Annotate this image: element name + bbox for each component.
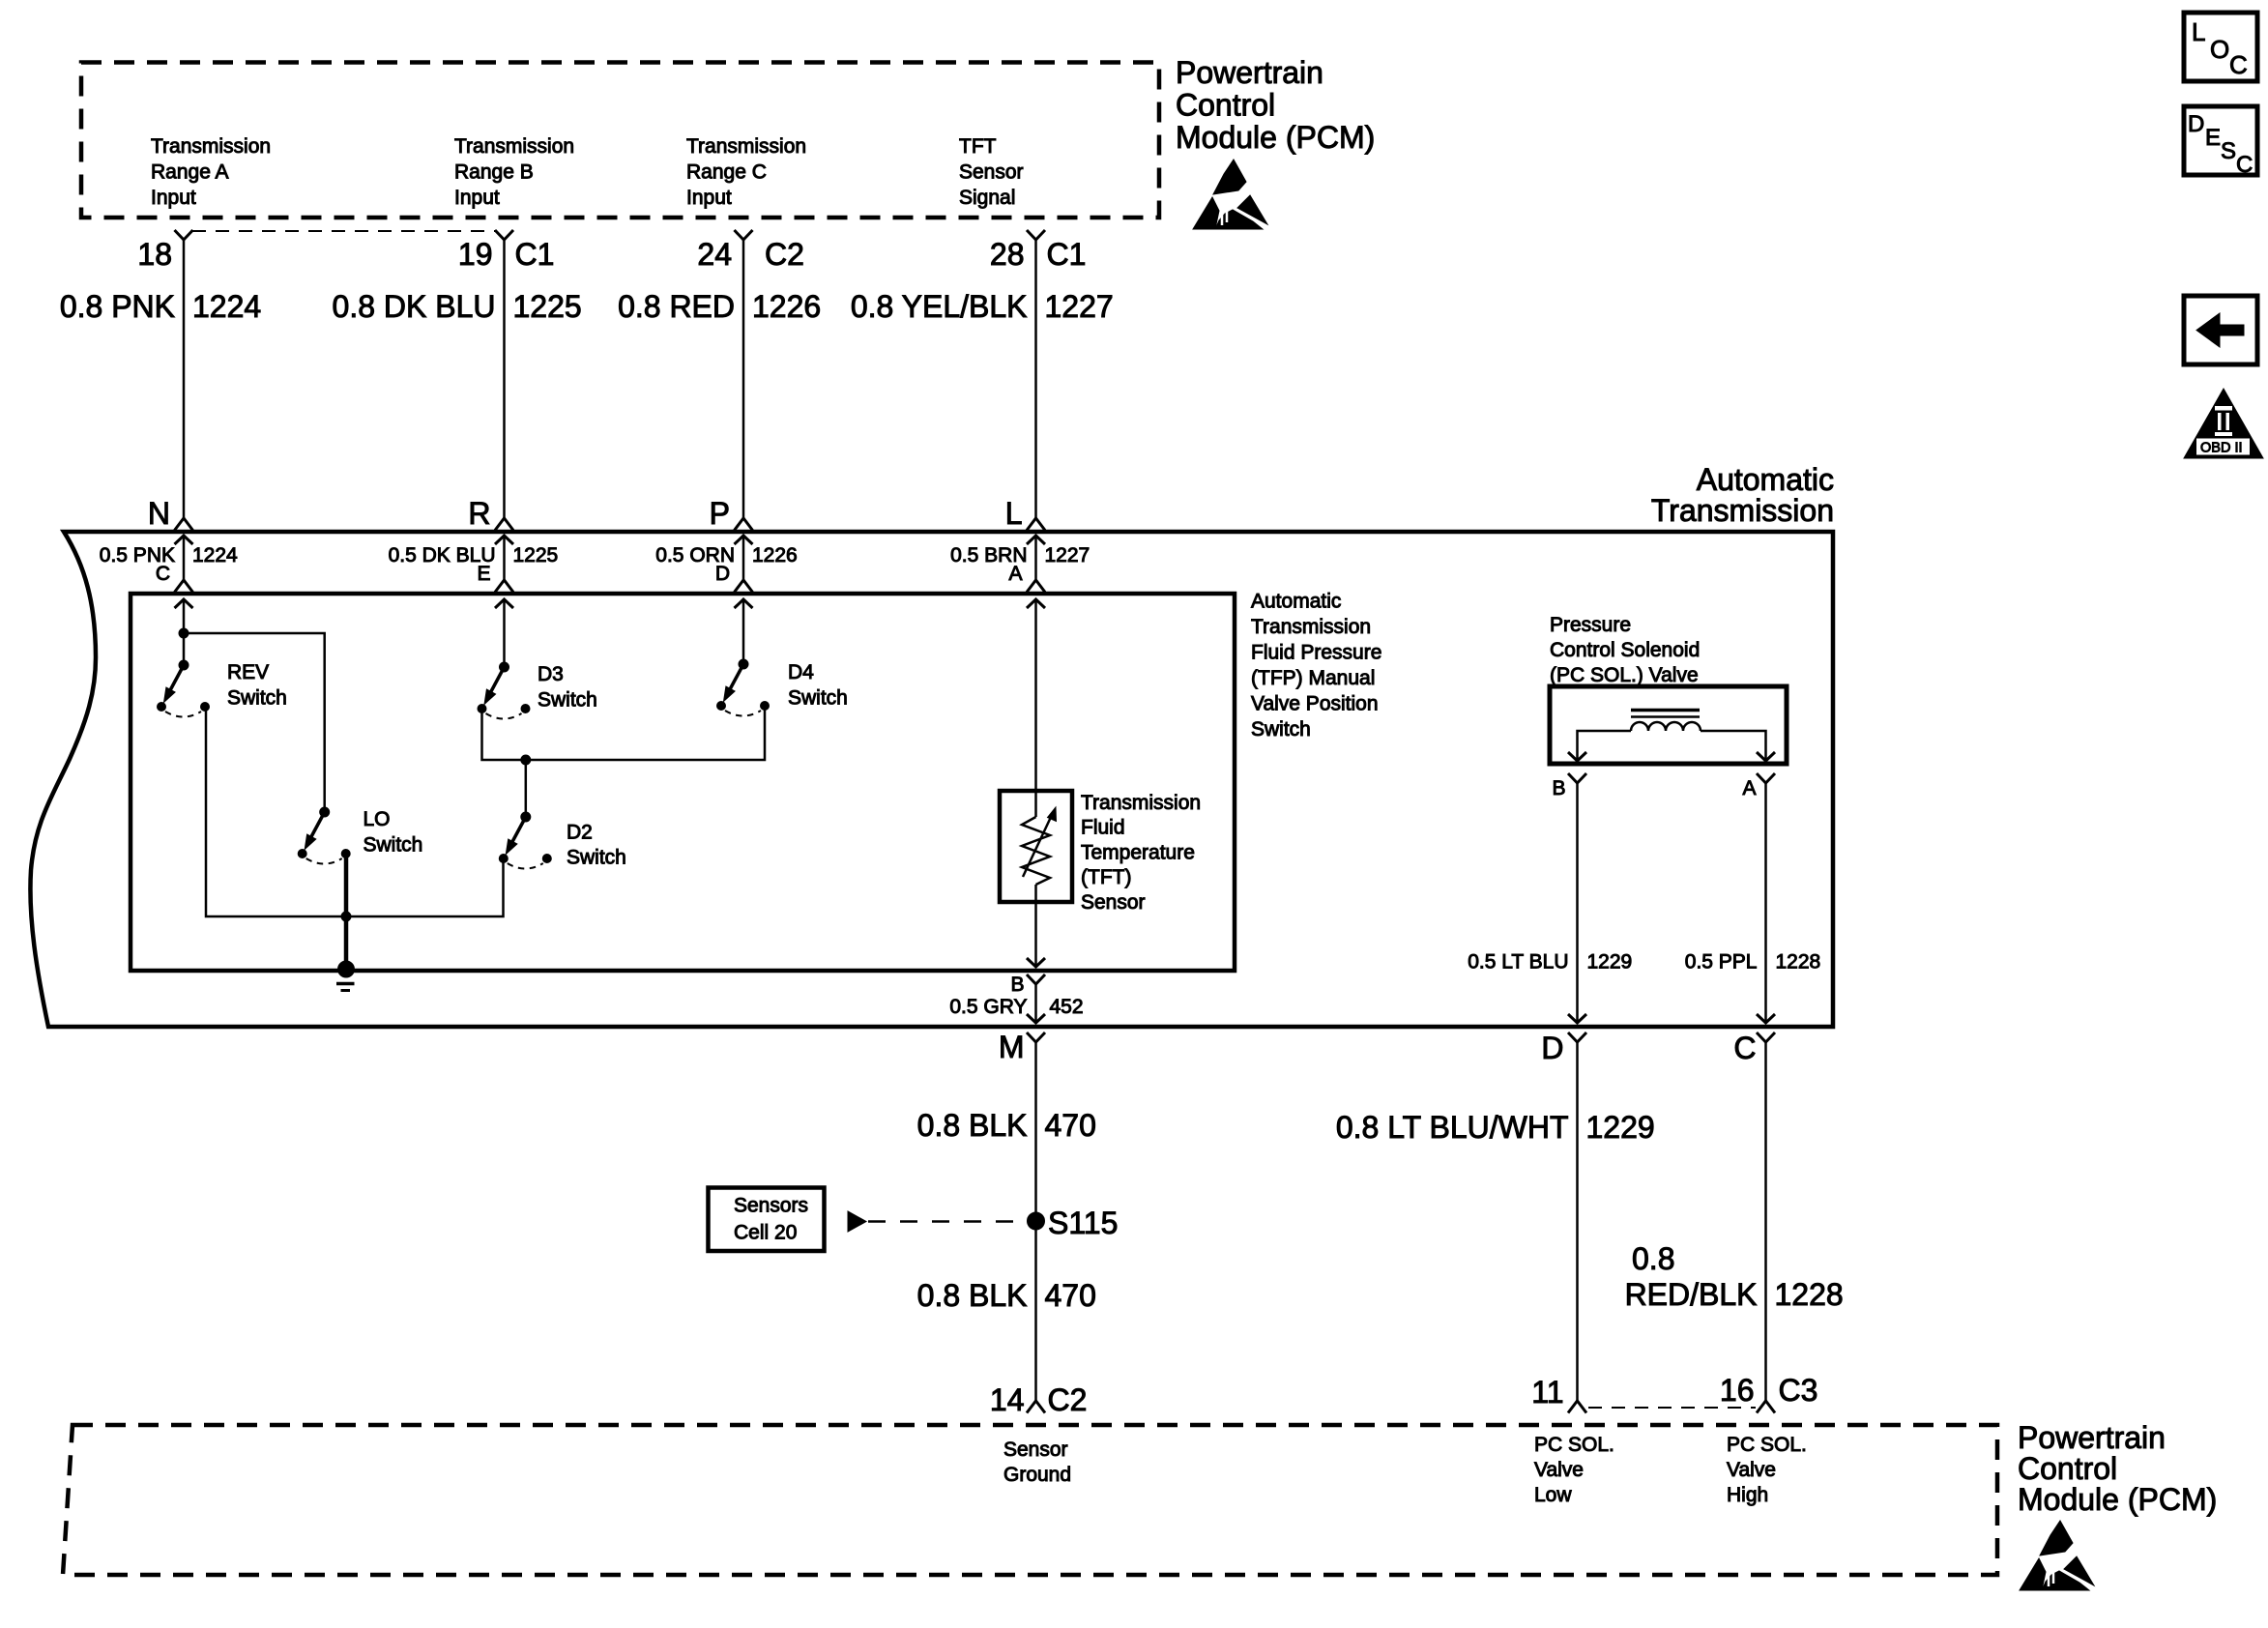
TFT sensor box [1000,791,1072,902]
DESC icon box [2184,106,2257,178]
svg-text:REV: REV [227,661,269,683]
svg-text:RED/BLK: RED/BLK [1625,1277,1758,1312]
PCM (top) dashed outline box [81,63,1159,218]
svg-text:1226: 1226 [752,544,798,567]
svg-text:Switch: Switch [567,847,626,869]
svg-text:C2: C2 [1048,1382,1088,1417]
svg-text:Temperature: Temperature [1081,841,1195,863]
wire 1228 C to PCM 16 [1764,1042,1767,1401]
pin B fork [1027,974,1045,984]
svg-text:D: D [2188,111,2204,137]
svg-text:C1: C1 [515,237,555,272]
svg-text:Transmission: Transmission [1251,616,1371,638]
svg-text:1224: 1224 [192,289,261,324]
wire 470 S115 to PCM 14 [1034,1221,1037,1401]
thin dashed connector line pins 18-19 [192,230,495,232]
svg-text:A: A [1008,563,1022,585]
svg-text:Switch: Switch [1251,718,1311,741]
svg-text:Fluid Pressure: Fluid Pressure [1251,642,1381,664]
svg-text:Low: Low [1534,1484,1572,1506]
svg-text:Sensor: Sensor [1081,891,1146,914]
ESD warning symbol (bottom PCM) [2020,1521,2094,1590]
svg-text:C: C [2229,50,2248,79]
svg-text:470: 470 [1045,1278,1096,1313]
D4 switch [717,659,770,716]
wire B to M [1034,984,1037,1023]
svg-text:C3: C3 [1779,1373,1818,1408]
wire 1227 (PCM 28 to transmission L) [1034,240,1037,518]
svg-text:1224: 1224 [192,544,238,567]
svg-text:Switch: Switch [227,687,287,710]
svg-text:16: 16 [1720,1373,1755,1408]
svg-text:C1: C1 [1047,237,1087,272]
svg-text:0.5 LT BLU: 0.5 LT BLU [1468,951,1568,974]
svg-text:Sensors: Sensors [734,1195,808,1217]
svg-text:S: S [2221,138,2236,164]
LOC icon box [2184,13,2257,81]
svg-text:N: N [148,496,170,531]
svg-text:OBD II: OBD II [2200,441,2243,456]
svg-text:Switch: Switch [788,687,848,710]
svg-text:0.8 BLK: 0.8 BLK [917,1108,1028,1143]
svg-text:Control: Control [1176,88,1275,123]
wire to D4 switch [742,599,745,664]
svg-text:0.8 RED: 0.8 RED [618,289,735,324]
svg-text:Valve Position: Valve Position [1251,693,1379,715]
svg-text:470: 470 [1045,1108,1096,1143]
pin 11 fork [1568,1401,1586,1413]
svg-text:O: O [2210,35,2229,64]
svg-text:Switch: Switch [538,689,597,712]
coil lead to pin A [1701,731,1766,760]
svg-text:D: D [715,563,730,585]
reference arrow [848,1211,866,1232]
PCM (bottom) dashed outline box [63,1425,1997,1575]
svg-text:PC SOL.: PC SOL. [1534,1434,1614,1456]
ground wire from LO switch [344,854,349,969]
svg-text:1225: 1225 [513,289,582,324]
svg-text:Switch: Switch [363,834,423,857]
wire TFT to pin B [1034,902,1037,967]
svg-text:Control Solenoid: Control Solenoid [1550,639,1700,661]
wire D3 contact to D4 contact [482,705,766,760]
pin C fork [1757,1032,1775,1042]
svg-text:0.5 GRY: 0.5 GRY [949,996,1027,1018]
solenoid core lines [1631,709,1700,712]
svg-text:1228: 1228 [1776,951,1821,974]
svg-text:28: 28 [990,237,1025,272]
svg-text:(TFT): (TFT) [1081,866,1131,888]
svg-text:C: C [1733,1031,1756,1065]
pin 18 fork at PCM [175,230,193,240]
svg-text:Automatic: Automatic [1251,591,1341,613]
svg-text:Transmission: Transmission [686,135,806,158]
svg-text:Valve: Valve [1727,1459,1776,1481]
PC SOL pin A fork [1757,773,1775,783]
pin M fork [1027,1032,1045,1042]
svg-text:R: R [468,496,490,531]
pin 14 fork [1027,1401,1045,1413]
svg-text:A: A [1742,777,1756,799]
junction node on PNK wire [179,628,189,638]
LO switch [298,807,350,864]
OBD II icon triangle [2184,389,2263,458]
svg-text:Range B: Range B [454,161,534,184]
svg-text:D2: D2 [567,822,593,844]
wire 470 M to splice S115 [1034,1042,1037,1221]
svg-text:P: P [710,496,730,531]
wire 1226 (PCM 24 to transmission P) [742,240,745,518]
REV switch [158,660,210,717]
svg-text:C: C [2236,152,2253,178]
svg-text:1227: 1227 [1045,289,1114,324]
svg-text:(TFP) Manual: (TFP) Manual [1251,667,1375,689]
svg-text:D3: D3 [538,663,564,685]
TFT sensor thermistor element [1022,791,1057,902]
svg-text:Sensor: Sensor [959,161,1024,184]
thin dashed connector line pins 11-16 [1588,1407,1756,1409]
wire 1229 D to PCM 11 [1576,1042,1579,1401]
wire TFT sensor feed [1034,599,1037,791]
wire junction to D2 pivot [525,760,528,817]
wire to D3 switch [503,599,506,667]
svg-text:0.8 BLK: 0.8 BLK [917,1278,1028,1313]
pin 16 fork [1757,1401,1775,1413]
pin D fork [1568,1032,1586,1042]
svg-text:Valve: Valve [1534,1459,1584,1481]
svg-text:1229: 1229 [1586,1110,1655,1145]
svg-text:PC SOL.: PC SOL. [1727,1434,1807,1456]
splice S115 [1028,1212,1045,1230]
svg-text:Range A: Range A [151,161,229,184]
svg-text:Transmission: Transmission [1651,493,1834,528]
svg-text:1228: 1228 [1775,1277,1844,1312]
svg-text:Transmission: Transmission [454,135,574,158]
svg-text:14: 14 [990,1382,1025,1417]
svg-text:Input: Input [151,187,196,209]
junction node D2 feed [521,755,531,765]
TFP manual valve position switch box [131,594,1235,971]
svg-text:M: M [999,1030,1025,1064]
svg-text:0.8 PNK: 0.8 PNK [60,289,175,324]
svg-text:0.5 PPL: 0.5 PPL [1685,951,1758,974]
ground symbol [336,961,355,991]
svg-text:Module (PCM): Module (PCM) [2018,1482,2217,1517]
svg-text:452: 452 [1050,996,1084,1018]
solenoid coil L1 [1631,722,1701,731]
svg-text:Module (PCM): Module (PCM) [1176,120,1375,155]
wire 1225 (PCM 19 to transmission R) [503,240,506,518]
svg-text:19: 19 [458,237,493,272]
svg-text:S115: S115 [1048,1206,1118,1240]
wire to REV switch [183,599,186,665]
svg-text:1226: 1226 [752,289,821,324]
coil lead to pin B [1578,731,1632,760]
svg-text:Control: Control [2018,1451,2117,1486]
svg-text:Pressure: Pressure [1550,614,1631,636]
svg-text:L: L [1005,496,1023,531]
svg-text:Sensor: Sensor [1003,1439,1068,1461]
svg-text:Fluid: Fluid [1081,817,1125,839]
Sensors Cell 20 reference box [709,1188,825,1252]
svg-text:TFT: TFT [959,135,997,158]
svg-text:0.8 YEL/BLK: 0.8 YEL/BLK [851,289,1028,324]
svg-text:Cell 20: Cell 20 [734,1222,797,1244]
svg-text:Powertrain: Powertrain [2018,1420,2166,1455]
svg-text:(PC SOL.) Valve: (PC SOL.) Valve [1550,664,1699,686]
svg-text:C2: C2 [765,237,804,272]
svg-text:C: C [156,563,170,585]
svg-text:1225: 1225 [513,544,559,567]
pin 24 fork at PCM [735,230,753,240]
svg-text:1227: 1227 [1045,544,1090,567]
svg-text:High: High [1727,1484,1768,1506]
svg-text:0.8: 0.8 [1632,1241,1674,1276]
svg-text:LO: LO [363,808,391,830]
svg-text:Ground: Ground [1003,1464,1071,1486]
Automatic Transmission box outline (torn left edge) [30,532,1833,1027]
pin 19 fork at PCM [495,230,513,240]
svg-text:B: B [1552,777,1565,799]
PC SOL pin B fork [1568,773,1586,783]
svg-text:0.8 LT BLU/WHT: 0.8 LT BLU/WHT [1336,1110,1569,1145]
svg-text:0.8 DK BLU: 0.8 DK BLU [333,289,496,324]
svg-text:D4: D4 [788,661,814,683]
svg-text:1229: 1229 [1587,951,1633,974]
D2 switch [499,812,551,869]
svg-text:18: 18 [137,237,172,272]
svg-text:Range C: Range C [686,161,767,184]
dashed reference line to S115 [868,1220,1023,1223]
wire 1229 PC SOL B to D [1576,783,1579,1023]
svg-text:11: 11 [1531,1375,1563,1410]
svg-text:Input: Input [686,187,732,209]
D3 switch [478,662,530,719]
svg-text:Automatic: Automatic [1697,462,1834,497]
svg-text:Input: Input [454,187,500,209]
back-arrow icon box [2184,296,2257,364]
junction node on ground wire [341,912,351,921]
wire 1228 PC SOL A to C [1764,783,1767,1023]
PC SOL valve box [1550,686,1787,764]
svg-text:Signal: Signal [959,187,1015,209]
ESD warning symbol (top PCM) [1193,160,1267,229]
wire branch to LO switch [184,633,325,812]
svg-text:Transmission: Transmission [1081,792,1201,814]
svg-text:Transmission: Transmission [151,135,271,158]
svg-text:E: E [2205,125,2221,151]
svg-text:E: E [477,563,490,585]
svg-text:24: 24 [697,237,732,272]
svg-text:B: B [1010,974,1024,996]
wire REV contact to D2 contact [206,707,504,916]
svg-text:D: D [1541,1031,1563,1065]
pin 28 fork at PCM [1027,230,1045,240]
svg-text:Powertrain: Powertrain [1176,55,1323,90]
wire 1224 (PCM 18 to transmission N) [183,240,186,518]
svg-text:L: L [2192,17,2205,46]
